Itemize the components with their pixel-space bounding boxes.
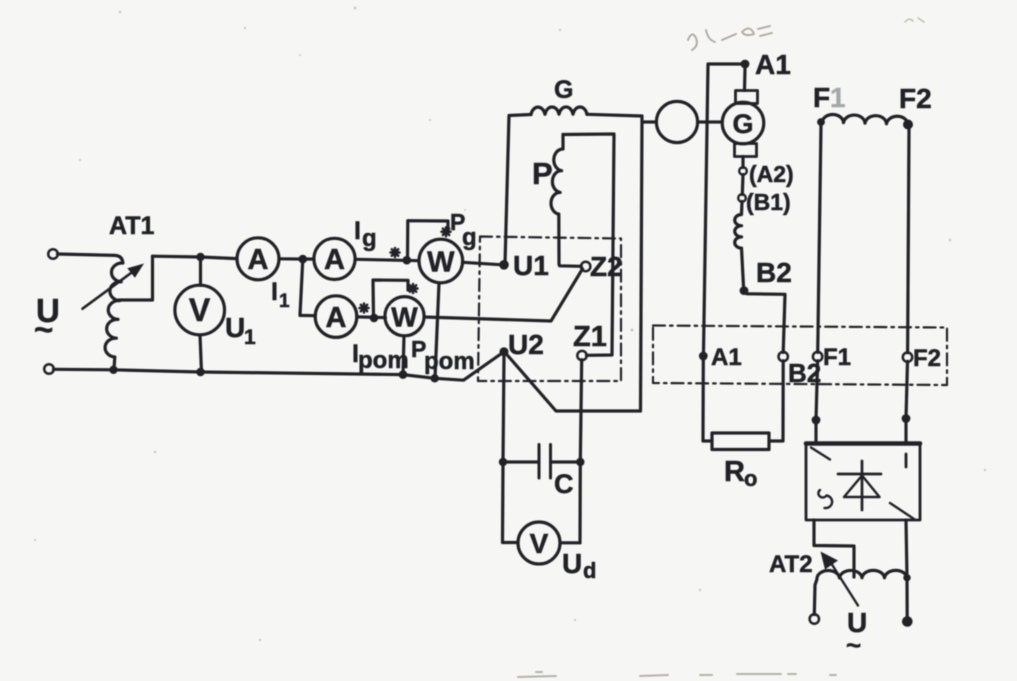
terminal F1 box: [813, 352, 822, 361]
svg-text:d: d: [583, 558, 596, 583]
svg-text:U: U: [225, 312, 245, 343]
node after A1: [299, 255, 308, 264]
ammeter A pom: [315, 296, 357, 338]
svg-text:(A2): (A2): [749, 161, 794, 187]
dc tick mark: [905, 454, 908, 467]
wire Ro to B2 branch: [769, 361, 783, 441]
AT1 wiper arrow: [83, 273, 132, 309]
AT1 tap wire: [119, 256, 153, 300]
svg-text:g: g: [462, 224, 477, 251]
wire rectifier right output down: [906, 520, 907, 620]
svg-text:Z1: Z1: [573, 321, 607, 353]
wire Z1 down: [580, 360, 582, 543]
svg-text:AT1: AT1: [109, 212, 154, 240]
wire F2 down: [908, 129, 909, 353]
svg-text:~: ~: [34, 311, 53, 348]
svg-text:U: U: [562, 548, 582, 579]
SECTION:RIGHT2: [518, 18, 924, 677]
thyristor cathode line: [861, 461, 864, 510]
svg-text:W: W: [391, 302, 418, 333]
svg-text:U2: U2: [508, 329, 544, 360]
wire A1 box down to Ro: [703, 360, 712, 441]
capacitor right lead: [551, 460, 581, 463]
svg-text:g: g: [362, 225, 377, 252]
svg-text:F: F: [813, 82, 830, 113]
node capacitor left: [499, 458, 507, 466]
svg-text:R: R: [724, 456, 745, 488]
wire B2 right and down: [747, 294, 785, 353]
wattmeter W pom: [385, 297, 424, 336]
asterisk W Pg voltage: [442, 227, 451, 236]
winding P inner loop: [563, 134, 614, 355]
dash-dot test box left: [478, 237, 621, 382]
terminal (B1): [738, 194, 746, 202]
wire U2 down to capacitor: [503, 356, 539, 462]
shaft stub right: [698, 120, 722, 123]
faint caption remnants bottom: [518, 672, 836, 677]
wattmeter W Pg: [419, 239, 463, 283]
source terminal bottom: [44, 364, 54, 374]
AT2 wiper arrow: [831, 563, 858, 606]
wire A pom to W pom: [357, 315, 386, 319]
svg-text:1: 1: [244, 326, 256, 349]
node before W pom: [370, 314, 379, 323]
terminal (A2): [739, 167, 747, 175]
wire voltmeter right: [560, 541, 580, 544]
W Pg voltage loop: [408, 221, 449, 260]
wire output rail: [153, 256, 238, 258]
svg-text:W: W: [427, 247, 455, 279]
svg-text:C: C: [554, 469, 574, 499]
SECTION:MIDDLE2: [642, 49, 947, 660]
prime mover circle: [656, 101, 697, 142]
svg-text:A1: A1: [711, 344, 742, 371]
wire F1 down: [818, 124, 821, 352]
pencil scribble top right: [905, 18, 924, 22]
P coil left side: [551, 135, 581, 267]
svg-text:V: V: [189, 292, 211, 328]
wire W Pg bottom to rail: [435, 283, 439, 378]
wire node down to pom row: [300, 259, 315, 316]
node rail Wpom: [399, 370, 408, 379]
brush block top: [736, 91, 758, 104]
svg-text:AT2: AT2: [769, 551, 813, 578]
svg-text:F2: F2: [913, 345, 941, 372]
ammeter A1: [237, 238, 279, 280]
machine stator outer loop with G winding: [505, 115, 531, 265]
AT1 winding: [105, 263, 123, 369]
wire W pom bottom to rail: [403, 336, 404, 374]
svg-text:A: A: [248, 244, 269, 276]
terminal A1 box: [699, 352, 708, 361]
node above rectifier left: [812, 416, 821, 425]
svg-text:B2: B2: [756, 257, 792, 288]
asterisk W pom voltage: [409, 284, 418, 293]
wire A2 to B1: [741, 175, 745, 195]
svg-text:I: I: [354, 217, 361, 245]
svg-text:F1: F1: [823, 344, 851, 371]
dash-dot terminal box right: [653, 326, 947, 386]
svg-text:P: P: [532, 156, 553, 191]
wire F1 box down: [816, 361, 818, 443]
svg-text:A: A: [326, 302, 347, 334]
terminal U1: [499, 260, 509, 270]
wire V to rail top: [199, 257, 202, 285]
svg-text:G: G: [554, 76, 573, 104]
brush block bottom: [735, 144, 757, 157]
pencil scribble top: [688, 26, 772, 50]
svg-text:A1: A1: [755, 49, 791, 80]
series winding B1-B2: [735, 202, 744, 287]
AT2 left lead down: [814, 579, 817, 615]
wire brush bottom to A2: [741, 157, 744, 168]
wire top rail: [58, 254, 123, 263]
wire G to right side down: [506, 114, 643, 411]
shaft stub left: [642, 120, 656, 123]
asterisk W pom current: [360, 304, 369, 313]
resistor Ro: [712, 433, 769, 450]
AT2 winding: [817, 570, 907, 578]
terminal A1 top: [741, 60, 750, 69]
wire rectifier left output to AT2 tap: [814, 520, 854, 577]
terminal U2: [500, 347, 509, 356]
svg-text:I: I: [271, 278, 278, 306]
wire U2 branch down to voltmeter: [503, 462, 519, 543]
W pom voltage loop: [373, 280, 408, 318]
svg-text:(B1): (B1): [746, 189, 791, 215]
svg-text:V: V: [530, 528, 549, 559]
capacitor C plates: [539, 445, 551, 479]
svg-text:G: G: [732, 109, 753, 139]
svg-text:F2: F2: [899, 83, 932, 114]
ammeter A Ig: [314, 238, 355, 279]
wire F2 box down: [906, 361, 908, 443]
asterisk W Pg current: [391, 248, 400, 257]
terminal B2 machine: [740, 286, 749, 295]
svg-text:1: 1: [830, 82, 846, 113]
node capacitor right: [576, 458, 584, 466]
svg-text:Z2: Z2: [590, 251, 623, 282]
svg-text:~: ~: [846, 630, 861, 660]
field terminal node F1: [817, 118, 825, 126]
voltmeter V: [175, 285, 225, 335]
field terminal node F2: [903, 120, 913, 130]
AT2 terminal right: [902, 616, 913, 627]
source terminal top: [48, 249, 58, 259]
svg-text:o: o: [744, 466, 757, 491]
terminal F2 box: [903, 353, 912, 362]
wire W Pg to U1: [463, 262, 501, 264]
svg-text:U1: U1: [513, 250, 549, 281]
node AT2 right: [903, 574, 910, 581]
node before W: [403, 256, 412, 265]
node above rectifier right: [902, 414, 911, 423]
field winding F1-F2: [822, 114, 908, 124]
node rail U2diag: [431, 374, 439, 382]
wire W pom output to Z2: [424, 269, 582, 321]
wire A1 to brush: [743, 68, 747, 91]
rectifier box: [806, 443, 920, 520]
wire V to rail bottom: [200, 335, 202, 372]
voltmeter V Ud: [518, 522, 560, 564]
rectifier corner mark bottom-right: [890, 503, 914, 519]
AT2 terminal left: [810, 614, 819, 623]
SECTION:LEFT2: [478, 76, 642, 583]
terminal B2 box: [779, 352, 788, 361]
dc generator G: [722, 102, 764, 144]
terminal Z2: [581, 262, 590, 271]
svg-text:A: A: [324, 244, 345, 276]
thyristor triangle: [844, 476, 880, 498]
node rail AT1: [109, 366, 117, 374]
wire A1 to node: [279, 257, 314, 261]
svg-text:pom: pom: [358, 347, 409, 374]
wire A1 left and down: [704, 64, 742, 352]
winding G: [531, 107, 587, 115]
svg-text:pom: pom: [424, 348, 475, 375]
ac tilde mark: [818, 490, 832, 508]
svg-text:1: 1: [279, 291, 290, 312]
node rail V: [196, 368, 205, 377]
rectifier corner mark top-left: [811, 448, 830, 460]
node top V: [196, 253, 204, 261]
thyristor bar: [838, 473, 881, 476]
terminal Z1: [577, 351, 586, 360]
wire bottom rail: [54, 354, 502, 381]
wire Ig to W: [355, 259, 419, 260]
